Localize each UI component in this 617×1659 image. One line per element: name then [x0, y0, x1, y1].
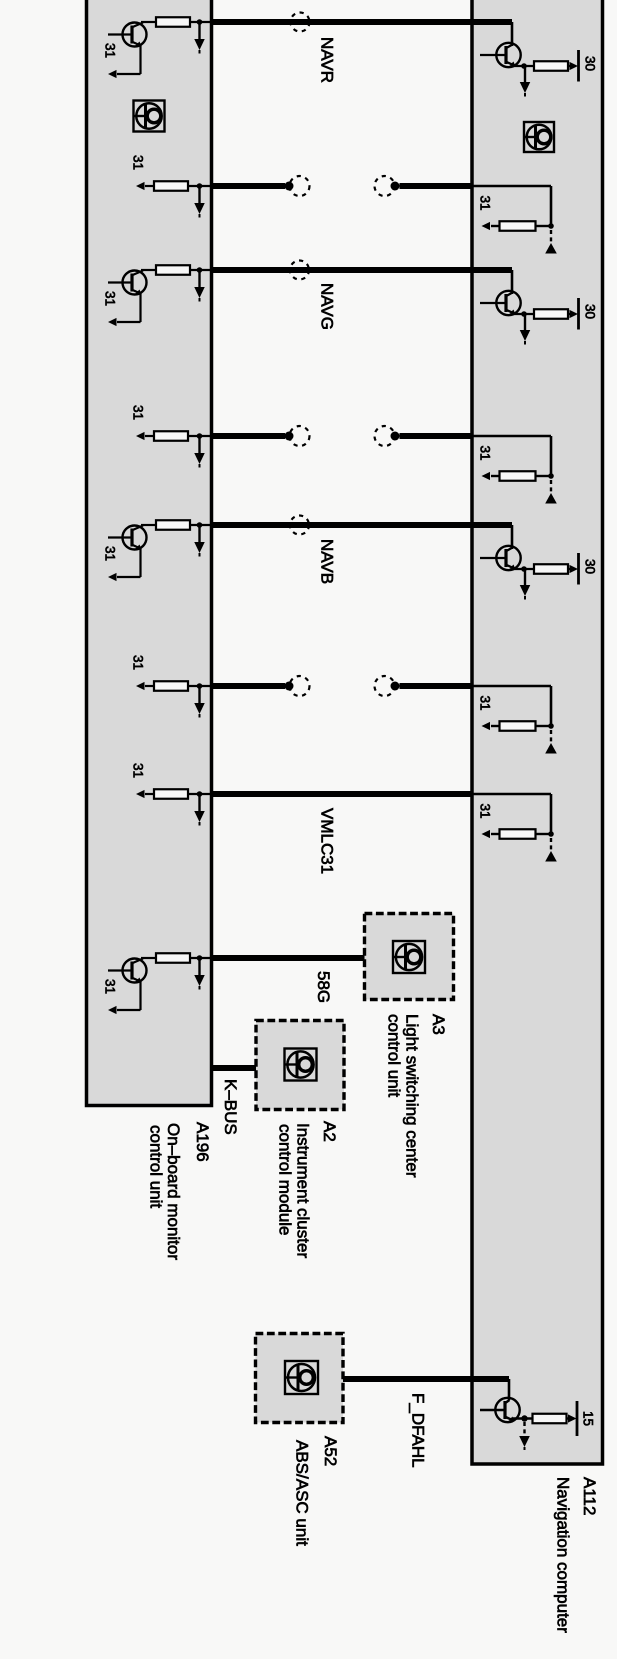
resistor shield VMLC31 (A196) — [154, 789, 188, 799]
resistor shield NAVR (A196) — [154, 181, 188, 191]
wire K-BUS (A196 to A2) — [211, 1065, 257, 1071]
ground arrow shield NAVR (A196) — [194, 186, 205, 218]
svg-text:31: 31 — [131, 155, 146, 170]
ground arrow head F_DFAHL (A112) — [519, 1436, 530, 1450]
wire NAVB drop (A112) — [511, 525, 514, 549]
node dot NAVR shield right — [391, 182, 400, 191]
resistor F_DFAHL (A112) — [533, 1414, 567, 1424]
label 31 (shield NAVB, A112) — [478, 696, 493, 711]
terminal 15 bar (F_DFAHL) — [576, 1401, 579, 1436]
wire shield VMLC31 internal (A196) — [145, 793, 211, 795]
svg-text:control module: control module — [276, 1124, 295, 1236]
connector symbol (A2) — [285, 1049, 317, 1081]
label 31 (shield NAVG, A196) — [131, 405, 146, 420]
wire 58G (A196 to A3) — [211, 955, 365, 961]
wire resistor to junction (shield NAVB, A112) — [491, 725, 551, 727]
svg-text:VMLC31: VMLC31 — [318, 808, 337, 874]
terminal 30 bar (NAVB) — [577, 553, 580, 585]
wire emitter to terminal 31 (NAVG) — [117, 294, 141, 323]
label 30 (NAVB) — [583, 559, 598, 574]
resistor NAVG driver (A196) — [156, 265, 190, 275]
svg-text:NAVG: NAVG — [318, 283, 337, 330]
svg-text:31: 31 — [478, 446, 493, 461]
svg-text:31: 31 — [478, 804, 493, 819]
svg-text:Light switching center: Light switching center — [403, 1014, 422, 1178]
label 31 (shield VMLC31, A112) — [478, 804, 493, 819]
ground triangle (shield NAVR, A112) — [545, 243, 557, 254]
ground arrow shield NAVB (A196) — [194, 686, 205, 718]
display symbol (A196 internal) — [134, 101, 165, 132]
wire to terminal 30 (NAVR) — [568, 65, 572, 67]
svg-text:A52: A52 — [321, 1436, 340, 1466]
svg-text:A2: A2 — [320, 1121, 339, 1142]
ground triangle (shield NAVB, A112) — [545, 743, 557, 754]
label 30 (NAVG) — [583, 304, 598, 319]
label 31 (shield NAVR, A112) — [478, 196, 493, 211]
shield connector dashed circle right (NAVR) — [375, 176, 395, 196]
transistor NAVR output stage (A196) — [108, 23, 147, 47]
label NAVG — [318, 283, 337, 330]
terminal 30 arrow (NAVB) — [570, 565, 579, 573]
shield connector dashed circle left (NAVB) — [290, 676, 310, 696]
junction dot shield NAVR (A112) — [548, 223, 554, 229]
transistor NAVG output stage (A196) — [108, 271, 147, 295]
wire NAVB shield left segment — [211, 683, 285, 689]
junction dot NAVG (A196) — [197, 267, 203, 273]
transistor NAVG input stage (A112) — [480, 291, 521, 315]
svg-text:ABS/ASC unit: ABS/ASC unit — [293, 1440, 312, 1546]
svg-text:31: 31 — [103, 546, 118, 561]
svg-text:K–BUS: K–BUS — [221, 1079, 240, 1135]
label 31 (shield VMLC31, A196) — [131, 763, 146, 778]
terminal 15 arrow (F_DFAHL) — [568, 1414, 577, 1422]
ground arrow shield NAVG (A196) — [194, 436, 205, 468]
svg-text:31: 31 — [103, 43, 118, 58]
wire emitter NAVB (A112) — [514, 568, 534, 570]
wire emitter to terminal 31 (NAVB) — [117, 549, 141, 578]
svg-text:58G: 58G — [314, 971, 333, 1003]
wire 58G internal (A196) — [141, 957, 211, 959]
junction dot shield NAVG (A112) — [548, 473, 554, 479]
connector symbol (A3) — [393, 941, 425, 973]
junction dot shield NAVG (A196) — [197, 433, 203, 439]
junction dot NAVG (A112) — [521, 311, 527, 317]
resistor NAVB (A112) — [534, 564, 568, 574]
resistor NAVR driver (A196) — [156, 17, 190, 27]
label 31 (58G emitter) — [103, 979, 118, 994]
node dot NAVB shield right — [391, 682, 400, 691]
resistor shield NAVG (A196) — [154, 431, 188, 441]
terminal 31 arrow (shield VMLC31, A112) — [482, 830, 491, 838]
terminal 31 arrow (shield NAVG, A112) — [482, 472, 491, 480]
wire NAVB (bus A196 to A112) — [211, 522, 512, 528]
ground arrow NAVB (A196) — [194, 525, 205, 557]
wire F_DFAHL (A52 to A112) — [343, 1376, 509, 1382]
terminal 31 arrow (shield NAVB, A112) — [482, 722, 491, 730]
transistor NAVB output stage (A196) — [108, 526, 147, 550]
resistor shield NAVB (A112) — [500, 721, 536, 731]
label NAVR — [318, 37, 337, 83]
inline connector dashed circle (NAVG) — [290, 261, 309, 280]
terminal 31 arrow (NAVB emitter) — [108, 573, 117, 581]
svg-text:control unit: control unit — [385, 1014, 404, 1097]
resistor shield NAVG (A112) — [500, 471, 536, 481]
ground arrow NAVG (A196) — [194, 270, 205, 302]
label Navigation computer — [554, 1477, 573, 1633]
ground arrow 58G (A196) — [194, 958, 205, 990]
label 58G — [314, 971, 333, 1003]
terminal 30 arrow (NAVG) — [570, 310, 579, 318]
svg-text:31: 31 — [131, 405, 146, 420]
label K-BUS — [221, 1079, 240, 1135]
svg-text:Instrument cluster: Instrument cluster — [294, 1123, 313, 1258]
wire VMLC31 (A196 to A112) — [211, 791, 472, 797]
wire F_DFAHL drop (A112) — [508, 1379, 511, 1400]
resistor shield NAVR (A112) — [500, 221, 536, 231]
svg-text:31: 31 — [131, 763, 146, 778]
junction dot shield NAVB (A196) — [197, 683, 203, 689]
svg-text:30: 30 — [583, 559, 598, 574]
shield connector dashed circle left (NAVR) — [290, 176, 310, 196]
label control unit (A3) — [385, 1014, 404, 1097]
wire NAVB internal (A196) — [141, 524, 211, 526]
control unit A52 dashed box (ABS/ASC) — [256, 1334, 344, 1423]
ground arrow shield VMLC31 (A196) — [194, 794, 205, 826]
label 15 (F_DFAHL) — [581, 1411, 596, 1426]
wire to terminal 15 (F_DFAHL) — [567, 1417, 570, 1419]
terminal 31 arrow (58G emitter) — [108, 1006, 117, 1014]
shield connector dashed circle left (NAVG) — [290, 426, 310, 446]
wire shield NAVB internal (A196) — [145, 685, 211, 687]
terminal 30 arrow (NAVR) — [570, 62, 579, 70]
svg-text:31: 31 — [478, 696, 493, 711]
wire NAVR (bus A196 to A112) — [211, 19, 512, 25]
label VMLC31 — [318, 808, 337, 874]
svg-text:Navigation computer: Navigation computer — [554, 1477, 573, 1633]
wire shield NAVR internal (A196) — [145, 185, 211, 187]
junction dot shield VMLC31 (A196) — [197, 791, 203, 797]
wire resistor to junction (shield VMLC31, A112) — [491, 833, 551, 835]
svg-text:A112: A112 — [580, 1477, 599, 1515]
svg-text:31: 31 — [478, 196, 493, 211]
svg-text:31: 31 — [131, 655, 146, 670]
dashed ground lead (shield NAVG, A112) — [550, 480, 552, 493]
transistor NAVR input stage (A112) — [480, 43, 521, 67]
wire shield NAVG internal (A196) — [145, 435, 211, 437]
wire NAVR drop (A112) — [511, 22, 514, 46]
ground arrow NAVG (A112) — [520, 314, 531, 345]
label control unit (A196) — [147, 1125, 166, 1208]
resistor NAVR (A112) — [534, 61, 568, 71]
svg-text:F_DFAHL: F_DFAHL — [409, 1393, 428, 1468]
wire NAVG (bus A196 to A112) — [211, 267, 512, 273]
node dot NAVR shield left — [285, 182, 294, 191]
node dot NAVB shield left — [285, 682, 294, 691]
label 31 (NAVR emitter) — [103, 43, 118, 58]
wire NAVG shield right segment — [400, 433, 473, 439]
wire emitter NAVG (A112) — [514, 313, 534, 315]
wire shield NAVB internal (A112) — [472, 686, 551, 726]
terminal 31 arrow (NAVR emitter) — [108, 70, 117, 78]
transistor F_DFAHL input stage (A112) — [480, 1398, 520, 1422]
label 31 (shield NAVB, A196) — [131, 655, 146, 670]
wire NAVG internal (A196) — [141, 269, 211, 271]
terminal 31 arrow (shield VMLC31, A196) — [136, 790, 145, 798]
wire shield NAVR internal (A112) — [472, 186, 551, 226]
label A196 — [193, 1122, 212, 1162]
junction dot shield NAVB (A112) — [548, 723, 554, 729]
wire to terminal 30 (NAVB) — [568, 568, 572, 570]
node dot NAVG shield left — [285, 432, 294, 441]
dashed ground lead (F_DFAHL, A112) — [523, 1422, 525, 1436]
junction dot shield NAVR (A196) — [197, 183, 203, 189]
label Instrument cluster — [294, 1123, 313, 1258]
ground arrow NAVR (A196) — [194, 22, 205, 54]
label Light switching center — [403, 1014, 422, 1178]
wire resistor to junction (shield NAVR, A112) — [491, 225, 551, 227]
wire resistor to junction (shield NAVG, A112) — [491, 475, 551, 477]
ground triangle (shield VMLC31, A112) — [545, 851, 557, 862]
terminal 30 bar (NAVG) — [577, 298, 580, 330]
terminal 31 arrow (shield NAVR, A112) — [482, 222, 491, 230]
connector symbol (A52) — [285, 1361, 318, 1394]
ground arrow NAVR (A112) — [520, 66, 531, 97]
shield connector dashed circle right (NAVG) — [375, 426, 395, 446]
wire emitter to terminal 31 (NAVR) — [117, 46, 141, 75]
label F_DFAHL — [409, 1393, 428, 1468]
dashed ground lead (shield VMLC31, A112) — [550, 838, 552, 851]
wire NAVG shield left segment — [211, 433, 285, 439]
transistor NAVB input stage (A112) — [480, 546, 521, 570]
label A112 — [580, 1477, 599, 1515]
label ABS/ASC unit — [293, 1440, 312, 1546]
label 31 (NAVG emitter) — [103, 291, 118, 306]
wire NAVB shield right segment — [400, 683, 473, 689]
svg-text:31: 31 — [103, 291, 118, 306]
dashed ground lead (shield NAVB, A112) — [550, 730, 552, 743]
label On-board monitor — [164, 1123, 183, 1260]
svg-text:15: 15 — [581, 1411, 596, 1426]
label 31 (shield NAVR, A196) — [131, 155, 146, 170]
label NAVB — [318, 539, 337, 584]
svg-text:NAVB: NAVB — [318, 539, 337, 584]
label 31 (shield NAVG, A112) — [478, 446, 493, 461]
label 31 (NAVB emitter) — [103, 546, 118, 561]
resistor shield VMLC31 (A112) — [500, 829, 536, 839]
wire shield VMLC31 internal (A112) — [472, 794, 551, 834]
svg-text:control unit: control unit — [147, 1125, 166, 1208]
display symbol (A112 internal) — [524, 122, 554, 152]
wire NAVR shield left segment — [211, 183, 285, 189]
junction dot NAVR (A196) — [197, 19, 203, 25]
shield connector dashed circle right (NAVB) — [375, 676, 395, 696]
junction dot NAVB (A196) — [197, 522, 203, 528]
wire emitter to terminal 31 (58G) — [117, 982, 141, 1011]
inline connector dashed circle (NAVB) — [290, 516, 309, 535]
wire emitter F_DFAHL (A112) — [513, 1417, 533, 1419]
label A2 — [320, 1121, 339, 1142]
junction dot NAVB (A112) — [521, 566, 527, 572]
ground triangle (shield NAVG, A112) — [545, 493, 557, 504]
label A3 — [429, 1014, 448, 1035]
dashed ground lead (shield NAVR, A112) — [550, 230, 552, 243]
resistor NAVB driver (A196) — [156, 520, 190, 530]
label 30 (NAVR) — [583, 56, 598, 71]
terminal 31 arrow (shield NAVR, A196) — [136, 182, 145, 190]
control unit A2 dashed box (Instrument cluster) — [256, 1021, 344, 1110]
svg-text:30: 30 — [583, 56, 598, 71]
ground arrow NAVB (A112) — [520, 569, 531, 600]
svg-text:A196: A196 — [193, 1122, 212, 1162]
label control module (A2) — [276, 1124, 295, 1236]
wire to terminal 30 (NAVG) — [568, 313, 572, 315]
resistor 58G driver (A196) — [156, 953, 190, 963]
svg-text:31: 31 — [103, 979, 118, 994]
terminal 31 arrow (shield NAVG, A196) — [136, 432, 145, 440]
label A52 — [321, 1436, 340, 1466]
transistor 58G output stage (A196) — [108, 959, 147, 983]
junction dot shield VMLC31 (A112) — [548, 831, 554, 837]
wire shield NAVG internal (A112) — [472, 436, 551, 476]
junction dot F_DFAHL (A112) — [521, 1415, 527, 1421]
junction dot NAVR (A112) — [521, 63, 527, 69]
resistor NAVG (A112) — [534, 309, 568, 319]
wire NAVR internal (A196) — [141, 21, 211, 23]
node dot NAVG shield right — [391, 432, 400, 441]
svg-text:30: 30 — [583, 304, 598, 319]
resistor shield NAVB (A196) — [154, 681, 188, 691]
terminal 31 arrow (NAVG emitter) — [108, 318, 117, 326]
inline connector dashed circle (NAVR) — [291, 13, 310, 32]
terminal 31 arrow (shield NAVB, A196) — [136, 682, 145, 690]
svg-text:NAVR: NAVR — [318, 37, 337, 83]
wire emitter NAVR (A112) — [514, 65, 534, 67]
junction dot 58G (A196) — [197, 955, 203, 961]
wire NAVR shield right segment — [400, 183, 473, 189]
svg-text:A3: A3 — [429, 1014, 448, 1035]
control unit box A112 (Navigation computer) — [472, 0, 603, 1464]
control unit A3 dashed box (Light switching center) — [365, 914, 454, 1000]
terminal 30 bar (NAVR) — [577, 50, 580, 82]
svg-text:On–board monitor: On–board monitor — [164, 1123, 183, 1260]
wire NAVG drop (A112) — [511, 270, 514, 294]
control unit box A196 (On-board monitor) — [87, 0, 212, 1106]
